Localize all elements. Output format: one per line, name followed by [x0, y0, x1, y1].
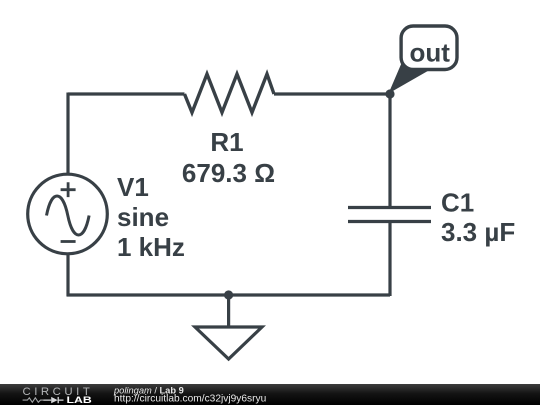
voltage source V1 circle [28, 174, 108, 254]
wire right vertical lower [388, 222, 391, 297]
footer bar [0, 384, 540, 405]
ground stub wire [227, 295, 230, 327]
out flag pointer wedge [389, 62, 434, 94]
wire bottom segment [67, 293, 391, 296]
CircuitLab logo diode symbol [43, 397, 63, 403]
svg-text:V1: V1 [117, 172, 149, 202]
node ground junction dot [224, 290, 233, 299]
svg-text:LAB: LAB [67, 394, 92, 405]
wire top-left segment [68, 92, 185, 95]
svg-text:C1: C1 [441, 188, 474, 218]
svg-text:out: out [409, 37, 450, 67]
svg-text:3.3 µF: 3.3 µF [441, 217, 515, 247]
wire left vertical upper [66, 93, 69, 175]
wire left vertical lower [66, 254, 69, 297]
V1 sine wave [47, 196, 90, 235]
svg-text:R1: R1 [210, 127, 243, 157]
svg-text:sine: sine [117, 202, 169, 232]
out flag box [401, 26, 457, 70]
capacitor C1 plates [348, 208, 431, 222]
ground triangle [195, 327, 262, 359]
V1 minus sign [61, 240, 76, 243]
svg-text:679.3 Ω: 679.3 Ω [182, 158, 275, 188]
wire right vertical upper [388, 94, 391, 208]
resistor R1 [185, 74, 275, 113]
CircuitLab logo resistor zigzag [23, 398, 44, 403]
svg-text:1 kHz: 1 kHz [117, 232, 185, 262]
svg-text:http://circuitlab.com/c32jvj9y: http://circuitlab.com/c32jvj9y6sryu [114, 394, 266, 405]
wire top-right segment [274, 92, 390, 95]
node out junction dot [385, 89, 394, 98]
V1 plus sign [61, 182, 76, 197]
